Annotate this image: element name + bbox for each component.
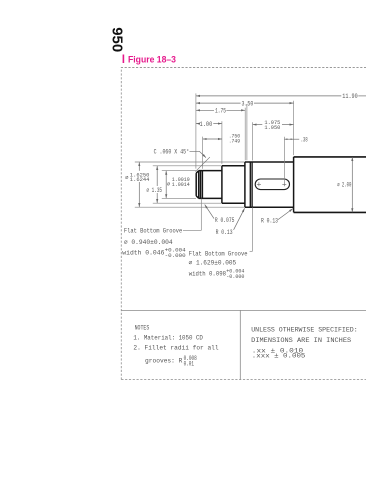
leader flat bottom groove 1	[183, 229, 201, 231]
ext groove2 below to note	[251, 207, 253, 251]
chamfer projection line	[195, 157, 210, 172]
svg-text:950: 950	[109, 27, 126, 52]
svg-text:R 0.13: R 0.13	[261, 218, 278, 225]
leader R 0.13 right	[278, 209, 293, 220]
svg-text:R 0.075: R 0.075	[215, 217, 235, 224]
notes block	[133, 324, 218, 367]
leader R 0.075	[205, 205, 214, 219]
svg-text:Figure 18–3: Figure 18–3	[128, 55, 176, 65]
keyway slot	[255, 179, 289, 190]
ext groove2 above	[252, 122, 254, 160]
ext step B-C second	[246, 104, 248, 160]
step B-C	[244, 162, 246, 207]
svg-text:Flat Bottom Groove: Flat Bottom Groove	[189, 250, 248, 257]
section C (1.625 dia)	[245, 162, 294, 207]
step A-B	[221, 166, 223, 203]
svg-text:DIMENSIONS ARE IN INCHES: DIMENSIONS ARE IN INCHES	[251, 337, 351, 345]
svg-text:⌀ 2.00: ⌀ 2.00	[337, 181, 351, 188]
svg-text:1.6244: 1.6244	[130, 176, 150, 183]
svg-text:UNLESS OTHERWISE SPECIFIED:: UNLESS OTHERWISE SPECIFIED:	[251, 326, 358, 334]
section D (2.00 dia)	[294, 157, 366, 213]
dim .38	[285, 138, 294, 140]
dim 1.75	[196, 109, 214, 111]
ext step B-C	[244, 108, 246, 161]
svg-text:1.950: 1.950	[264, 124, 280, 131]
dimension texts	[125, 93, 358, 236]
ext groove1 below to note	[200, 199, 202, 231]
svg-text:C .060 X 45°: C .060 X 45°	[154, 148, 190, 155]
extension lines	[135, 93, 294, 251]
dimension lines	[139, 96, 366, 230]
svg-text:grooves: R: grooves: R	[145, 357, 183, 364]
svg-text:width 0.098: width 0.098	[189, 270, 227, 277]
svg-text:2. Fillet radii for all: 2. Fillet radii for all	[133, 344, 218, 351]
dim 1.975/1.950	[253, 124, 263, 126]
dim 11.90	[196, 95, 341, 97]
groove 2	[250, 162, 252, 207]
title block divider	[239, 310, 241, 379]
svg-text:⌀ 1.35: ⌀ 1.35	[147, 187, 163, 194]
groove note 2	[189, 250, 248, 280]
svg-text:-0.000: -0.000	[165, 253, 186, 259]
svg-text:1. Material: 1050 CD: 1. Material: 1050 CD	[133, 334, 203, 341]
section A (1.00 dia)	[196, 171, 222, 199]
shaft outline	[196, 157, 366, 213]
ext groove1 right wall	[202, 137, 204, 169]
svg-text:width 0.046: width 0.046	[122, 250, 165, 257]
svg-text:⌀: ⌀	[167, 181, 171, 187]
svg-text:3.50: 3.50	[242, 100, 254, 107]
drawing frame	[121, 68, 366, 380]
svg-text:0.01: 0.01	[184, 360, 195, 367]
dim 3.50	[196, 102, 241, 104]
dim .750/.749	[203, 138, 222, 140]
dim dia 1.35 vertical	[156, 166, 158, 203]
figure label bar	[123, 55, 125, 64]
svg-text:1.75: 1.75	[215, 108, 226, 115]
svg-text:11.90: 11.90	[342, 93, 358, 100]
ext left end	[195, 93, 197, 168]
svg-text:-0.000: -0.000	[226, 274, 244, 280]
svg-text:⌀: ⌀	[125, 175, 129, 181]
ext section D face	[293, 101, 295, 155]
keyway center mark left	[257, 182, 261, 186]
svg-text:NOTES: NOTES	[135, 324, 150, 331]
ext dia 1.35 bottom	[153, 202, 222, 204]
svg-text:⌀ 0.940±0.004: ⌀ 0.940±0.004	[124, 239, 173, 246]
step C-D	[293, 157, 295, 213]
keyway center mark right	[282, 182, 286, 186]
ext dia 1.625 bottom	[135, 206, 245, 208]
leader R 0.13 left	[234, 208, 245, 230]
svg-text:R 0.13: R 0.13	[216, 229, 233, 236]
dim dia 1.0019 vertical	[165, 171, 167, 198]
leader flat bottom groove 2	[250, 250, 253, 252]
dim dia 1.6250 vertical	[138, 162, 140, 207]
title block top line	[121, 309, 366, 311]
dim dia 2.00 vertical	[351, 157, 353, 212]
svg-text:.xxx ± 0.005: .xxx ± 0.005	[252, 353, 306, 360]
ext dia 1.0019 top	[162, 170, 196, 172]
svg-text:1.0014: 1.0014	[172, 181, 190, 188]
svg-text:.38: .38	[301, 136, 308, 143]
ext dia 1.35 top	[153, 165, 222, 167]
tolerance block	[251, 326, 358, 359]
section B (1.35 dia)	[222, 166, 245, 203]
groove note 1	[122, 228, 185, 259]
svg-text:Flat Bottom Groove: Flat Bottom Groove	[124, 228, 183, 235]
svg-text:1.00: 1.00	[200, 121, 213, 128]
ext step A-B	[221, 121, 223, 164]
svg-text:⌀ 1.629±0.005: ⌀ 1.629±0.005	[189, 260, 237, 267]
groove 1	[201, 171, 203, 198]
ext dia 1.625 top	[135, 161, 245, 163]
chamfer leader	[190, 151, 207, 157]
ext dia 1.0019 bottom	[162, 197, 196, 199]
dim 1.00	[196, 123, 198, 125]
svg-text:.749: .749	[229, 138, 241, 145]
ext keyway right center	[283, 137, 285, 183]
